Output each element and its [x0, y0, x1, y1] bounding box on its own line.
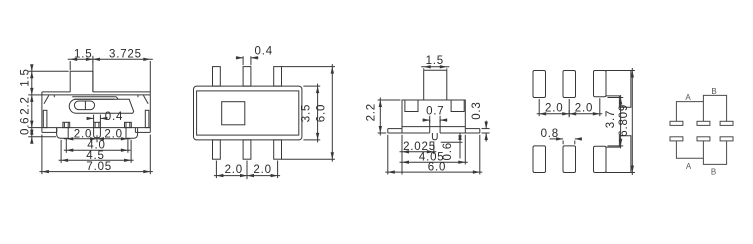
- dimension 0.8 pad width (view 4): [562, 141, 564, 145]
- bottom small pad 3: [594, 146, 607, 172]
- svg-text:A: A: [686, 162, 692, 171]
- bottom large side pad (L-shaped): [606, 136, 631, 173]
- terminal foot pin 3 (bends outward right): [126, 128, 138, 139]
- left side tab inside body: [43, 110, 47, 127]
- extension lines pad pitch dims: [538, 99, 540, 116]
- left vertical dimension chain 1.5 / 2.2 / 0.6 (view 1): [31, 67, 33, 142]
- svg-text:1.5: 1.5: [74, 48, 92, 60]
- svg-text:6.809: 6.809: [618, 104, 630, 137]
- centre square opening (view 2): [222, 102, 245, 125]
- top large side pad (L-shaped): [606, 71, 631, 108]
- svg-text:0.7: 0.7: [426, 105, 444, 117]
- switch body outline (view 1): [42, 91, 70, 93]
- top dimension line 1.5 / 3.725: [68, 58, 153, 60]
- body base line (view 1): [42, 127, 150, 129]
- slider position stadium inside slot: [74, 101, 94, 110]
- extension lines bottom dims view 1: [65, 139, 67, 142]
- wire B bottom: [703, 141, 726, 165]
- right cover tab (view 3): [451, 100, 464, 112]
- extension lines bottom dims view 2: [215, 161, 217, 179]
- svg-text:1.5: 1.5: [426, 55, 444, 67]
- three lower terminal pins (view 2): [213, 140, 221, 159]
- svg-text:0.8: 0.8: [541, 128, 559, 140]
- contact pad 3 top: [720, 121, 733, 125]
- svg-text:2.0: 2.0: [545, 103, 563, 115]
- terminal base side feet (view 1): [42, 131, 57, 133]
- contact pad 2 top: [697, 121, 710, 125]
- dimension 4.0 (view 1): [64, 149, 131, 151]
- dimension 0.6 pin protrusion (view 3): [441, 141, 463, 143]
- terminal foot pin 1 (bends outward left): [57, 128, 69, 139]
- svg-text:3.7: 3.7: [605, 110, 617, 128]
- body outline (view 3): [402, 100, 465, 129]
- svg-text:2.0: 2.0: [575, 103, 593, 115]
- contact pad 3 bottom: [720, 137, 733, 141]
- body base line (view 3): [402, 126, 465, 128]
- dimension 4.05 (view 3): [400, 161, 468, 163]
- svg-text:2.0: 2.0: [104, 129, 122, 141]
- svg-text:0.3: 0.3: [471, 101, 483, 119]
- dimension 2.0 / 2.0 pin pitch (view 2): [214, 175, 280, 177]
- terminal foot pin 2 (straight): [94, 128, 101, 138]
- right side tab inside body: [145, 110, 149, 127]
- body outline outer (view 2): [194, 86, 302, 140]
- chamfer corners of cover (view 1): [44, 95, 49, 103]
- actuator knob (view 3): [424, 70, 447, 100]
- wire A bottom: [676, 141, 703, 158]
- svg-text:0.4: 0.4: [105, 111, 123, 123]
- dimension 4.5 (view 1): [59, 159, 134, 161]
- wire B top: [703, 95, 726, 121]
- wire A top: [676, 102, 703, 122]
- svg-text:2.2: 2.2: [366, 103, 378, 121]
- dimension 3.7 row gap (view 4): [608, 97, 624, 99]
- actuator knob (view 1): [70, 71, 93, 92]
- centre terminal pin tip (view 3): [432, 133, 437, 140]
- svg-text:B: B: [711, 168, 717, 177]
- top small pad 3: [594, 71, 607, 97]
- cover seam lines: [72, 96, 116, 98]
- extension lines for top dims: [69, 61, 71, 70]
- extension lines to left dim chain: [28, 70, 68, 72]
- dimension 7.05 overall length (view 1): [39, 171, 152, 173]
- extension lines bottom dims view 3: [401, 135, 403, 175]
- svg-text:0.6: 0.6: [19, 117, 31, 135]
- svg-text:B: B: [711, 87, 717, 96]
- dimension 0.4 centre pin width (view 2): [242, 56, 244, 65]
- three upper terminal pins (view 2): [213, 67, 221, 87]
- svg-text:1.5: 1.5: [19, 68, 31, 86]
- dimension 2.025 (view 3): [400, 151, 437, 153]
- svg-text:3.5: 3.5: [300, 104, 312, 122]
- terminal pins (squares at body base): [63, 122, 70, 127]
- dimension 6.0 (view 3): [385, 171, 482, 173]
- dimension 6.0 pin span (view 2): [331, 64, 333, 162]
- svg-text:A: A: [685, 93, 691, 102]
- svg-text:6.0: 6.0: [315, 104, 327, 122]
- svg-text:3.725: 3.725: [109, 48, 142, 60]
- svg-text:7.05: 7.05: [86, 161, 112, 173]
- svg-text:2.2: 2.2: [19, 96, 31, 114]
- contact pad 1 top: [670, 121, 683, 125]
- dimension 2.2 body height (view 3): [378, 99, 401, 101]
- centre terminal pin (view 3): [429, 120, 431, 133]
- top small pad 1: [533, 71, 546, 98]
- dimension 6.809 overall pad height (view 4): [631, 68, 633, 175]
- bottom small pad 2: [563, 146, 576, 173]
- left cover tab (view 3): [405, 100, 418, 112]
- dimension 2.0 / 2.0 pin pitch (view 1): [64, 138, 131, 140]
- svg-text:2.0: 2.0: [253, 164, 271, 176]
- extension lines right dims view 2: [303, 85, 320, 87]
- svg-text:4.5: 4.5: [86, 150, 104, 162]
- dimension 0.3 wing thickness (view 3): [482, 128, 490, 130]
- dimension 0.7 centre pin width (view 3): [429, 116, 431, 123]
- dimension 2.0 / 2.0 pad pitch (view 4): [537, 113, 603, 115]
- bottom small pad 1: [533, 146, 546, 173]
- terminal wings both sides (view 3): [388, 128, 402, 130]
- svg-text:6.0: 6.0: [428, 162, 446, 174]
- slot opening (stadium) in cover: [69, 99, 133, 113]
- body outline inner (view 2): [197, 91, 299, 135]
- dimension 0.4 centre pin width (view 1): [93, 115, 95, 122]
- svg-text:0.4: 0.4: [255, 46, 273, 58]
- dimension 3.5 body width (view 2): [317, 84, 319, 143]
- top small pad 2: [563, 71, 576, 98]
- svg-text:2.0: 2.0: [225, 164, 243, 176]
- contact pad 2 bottom: [697, 137, 710, 141]
- contact pad 1 bottom: [670, 137, 683, 141]
- dimension 1.5 knob width (view 3): [421, 66, 449, 68]
